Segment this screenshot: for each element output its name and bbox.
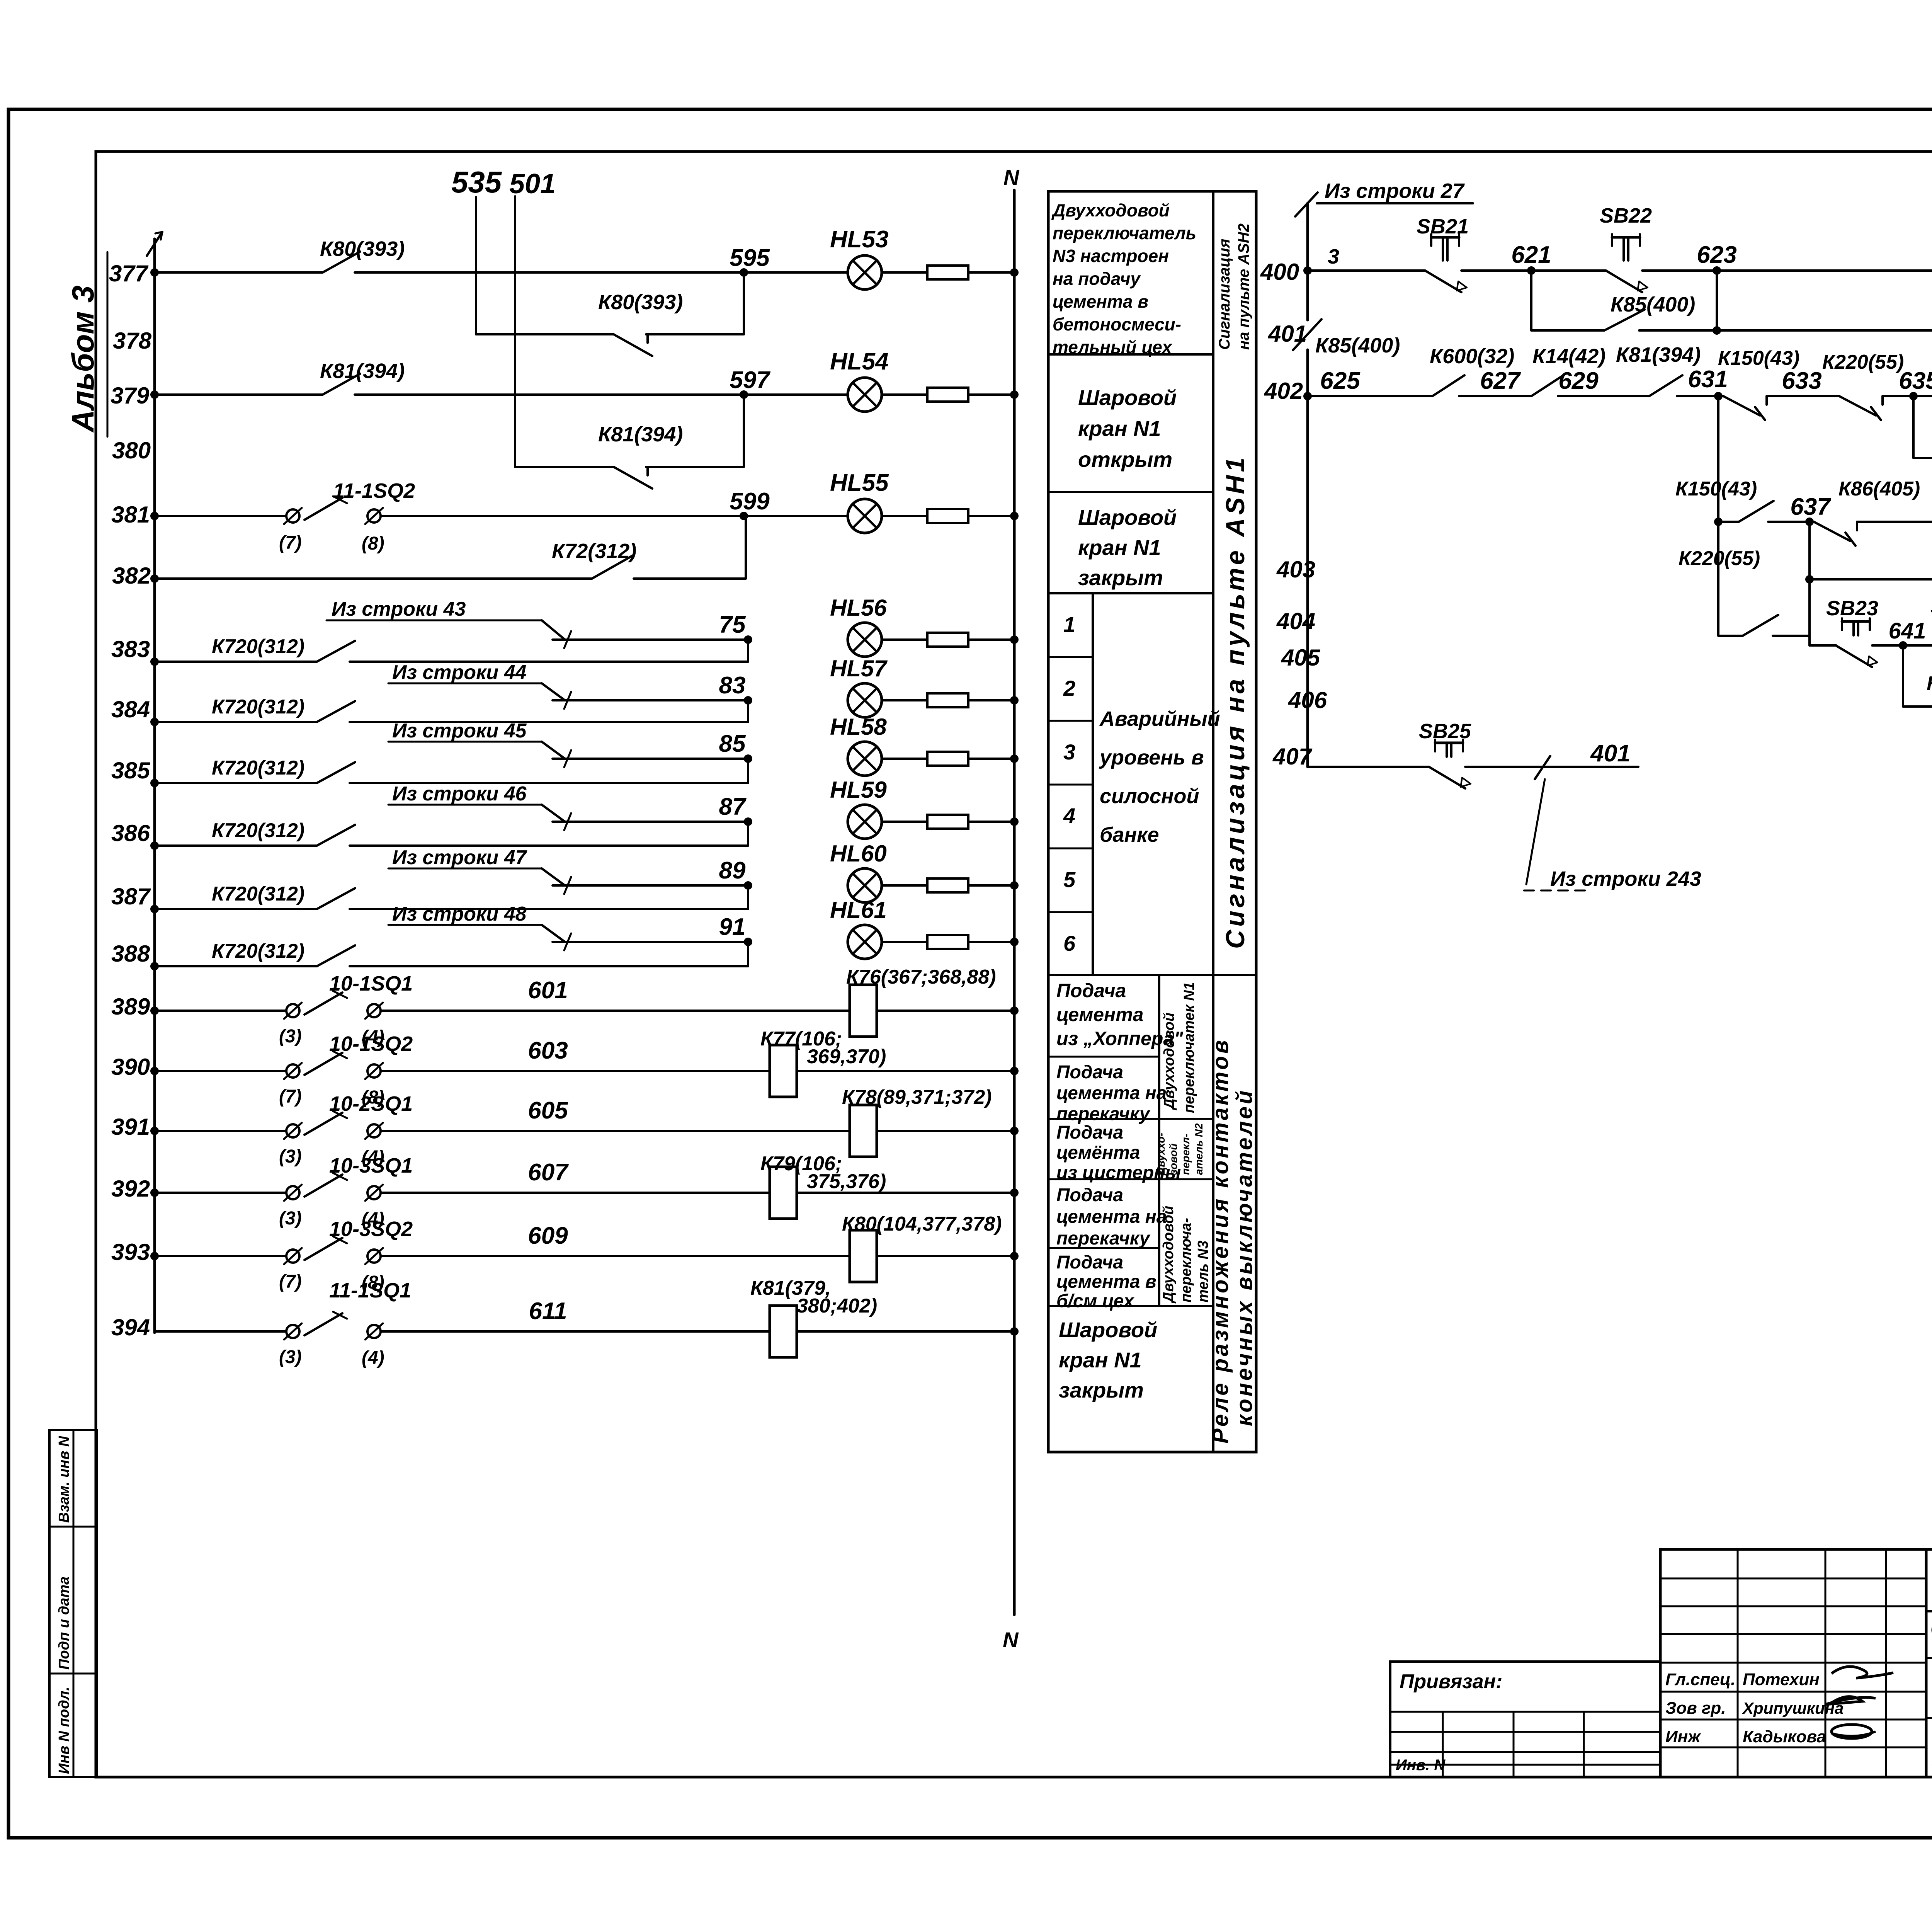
vertical jog row 384 [747, 700, 749, 722]
svg-text:цемента на: цемента на [1056, 1207, 1167, 1227]
wire HL55 to resistor [882, 515, 927, 517]
relay coil row 389 [850, 985, 877, 1037]
svg-text:переключатель: переключатель [1053, 223, 1196, 243]
svg-text:кран N1: кран N1 [1078, 416, 1161, 441]
signature 1 [1832, 1667, 1893, 1678]
svg-text:389: 389 [111, 994, 150, 1020]
title object line [1926, 1657, 1932, 1659]
svg-text:HL55: HL55 [830, 470, 889, 496]
svg-text:на подачу: на подачу [1053, 269, 1141, 289]
svg-text:Зов гр.: Зов гр. [1665, 1699, 1726, 1718]
limit switch 10-2SQ1 blade [304, 1113, 342, 1135]
svg-text:386: 386 [111, 820, 150, 846]
svg-text:б/см цех: б/см цех [1056, 1291, 1135, 1311]
svg-text:Привязан:: Привязан: [1400, 1670, 1502, 1693]
numbered sub-column line [1092, 593, 1094, 975]
wire row 388 from bus [155, 965, 317, 967]
svg-text:597: 597 [730, 367, 770, 393]
node row 391 on bus [150, 1127, 159, 1135]
wire row 405 b [1872, 644, 1932, 647]
wire coil to N row 394 [797, 1330, 1014, 1333]
contact K80(393) row 377 [323, 252, 360, 272]
limit switch 10-2SQ1 terminal (4) [367, 1124, 381, 1137]
reference diagonal row 384 [542, 683, 565, 700]
svg-text:Потехин: Потехин [1743, 1670, 1820, 1689]
svg-text:402: 402 [1264, 378, 1303, 404]
wire row 388 to node [350, 965, 748, 967]
wire row 402 c [1558, 395, 1649, 397]
lamp HL57 [848, 683, 882, 717]
svg-text:К85(400): К85(400) [1611, 293, 1695, 316]
node 637 [1805, 518, 1814, 526]
node 635 [1909, 392, 1918, 400]
node row 383 on bus [150, 657, 159, 666]
branch K86(405) vertical left [1902, 645, 1904, 707]
svg-text:зовой: зовой [1167, 1144, 1179, 1175]
junction N row 383 [1010, 635, 1019, 644]
resistor row 379 [927, 388, 968, 402]
condition table outer box [1048, 191, 1256, 1452]
svg-text:6: 6 [1063, 931, 1076, 955]
svg-text:406: 406 [1288, 687, 1327, 713]
resistor row 384 [927, 693, 968, 707]
svg-text:Из строки 243: Из строки 243 [1550, 867, 1701, 890]
svg-text:535: 535 [451, 165, 502, 199]
svg-text:Двухходовой: Двухходовой [1161, 1013, 1177, 1110]
svg-text:HL59: HL59 [830, 777, 887, 803]
table row line 1273 [1048, 491, 1213, 493]
vertical 637 to row 405 [1808, 522, 1811, 645]
svg-text:К86(405): К86(405) [1838, 478, 1920, 500]
svg-text:Подача: Подача [1056, 1122, 1123, 1143]
node row 393 on bus [150, 1252, 159, 1260]
title code line [1926, 1610, 1932, 1612]
svg-text:75: 75 [719, 611, 746, 638]
bus contact K85(400) [1293, 319, 1321, 350]
table row line 2895 [1048, 1118, 1213, 1120]
wire resistor to N row 377 [968, 271, 1014, 274]
svg-text:401: 401 [1268, 321, 1307, 347]
wire resistor to N row 385 [968, 758, 1014, 760]
junction N row 385 [1010, 754, 1019, 763]
junction N row 392 [1010, 1188, 1019, 1197]
svg-text:603: 603 [528, 1037, 568, 1064]
limit switch 11-1SQ2 terminal (7) [286, 509, 299, 523]
wire HL61 to resistor [882, 941, 927, 943]
junction bus row 400 [1303, 266, 1312, 275]
svg-text:392: 392 [111, 1176, 150, 1202]
svg-text:Инв. N: Инв. N [1396, 1757, 1446, 1774]
wire row 392 to coil [381, 1192, 770, 1194]
svg-text:385: 385 [111, 758, 151, 783]
svg-text:Гл.спец.: Гл.спец. [1665, 1670, 1735, 1689]
wire row 386 to node [350, 844, 748, 847]
node row 384 on bus [150, 718, 159, 726]
node 599 [740, 512, 748, 520]
node 91 [744, 938, 752, 946]
svg-text:Из строки 43: Из строки 43 [332, 598, 466, 620]
svg-text:382: 382 [112, 563, 151, 589]
svg-text:(7): (7) [279, 533, 302, 553]
wire row 377 right [355, 271, 848, 274]
svg-text:5: 5 [1063, 867, 1076, 892]
reference tick row 385 [564, 750, 571, 767]
svg-text:кран N1: кран N1 [1078, 535, 1161, 560]
svg-text:599: 599 [730, 488, 770, 515]
middle sub-column line [1158, 975, 1160, 1306]
wire row 384 from bus [155, 721, 317, 723]
svg-text:перекл-: перекл- [1180, 1134, 1192, 1175]
wire HL58 to resistor [882, 758, 927, 760]
svg-text:К720(312): К720(312) [212, 757, 304, 779]
svg-text:637: 637 [1790, 494, 1831, 520]
contact K600(32) [1432, 375, 1464, 396]
node 621 [1527, 266, 1536, 275]
svg-text:(7): (7) [279, 1272, 302, 1292]
reference dash underline 243 [1524, 890, 1587, 892]
svg-text:HL61: HL61 [830, 897, 887, 923]
signature 3 [1832, 1725, 1872, 1738]
svg-text:силосной: силосной [1100, 785, 1199, 808]
node 75 [744, 635, 752, 644]
wire row 391 to coil [381, 1130, 850, 1132]
svg-text:цемента на: цемента на [1056, 1083, 1167, 1103]
node 631 [1714, 392, 1723, 400]
svg-text:К80(393): К80(393) [598, 291, 683, 314]
wire row 402 e [1767, 395, 1839, 397]
pushbutton SB22 [1612, 236, 1640, 239]
junction N row 387 [1010, 881, 1019, 890]
branch 382 vertical to node 599 [745, 516, 747, 579]
junction N row 386 [1010, 817, 1019, 826]
node row 389 on bus [150, 1006, 159, 1015]
lamp HL55 [848, 499, 882, 533]
lamp HL53 [848, 255, 882, 289]
node 595 [740, 268, 748, 277]
vertical jog row 385 [747, 759, 749, 783]
node row 390 on bus [150, 1067, 159, 1075]
svg-text:К72(312): К72(312) [552, 540, 636, 563]
svg-text:Альбом 3: Альбом 3 [66, 286, 100, 433]
reference wire row 384 [553, 699, 748, 701]
svg-text:Подача: Подача [1056, 1252, 1123, 1273]
svg-text:SB21: SB21 [1417, 215, 1469, 238]
svg-text:К14(42): К14(42) [1532, 345, 1605, 368]
lamp HL59 [848, 805, 882, 839]
branch HL67 vertical from 635 [1912, 396, 1915, 458]
wire HL54 to resistor [882, 393, 927, 396]
reference diagonal row 383 [542, 620, 565, 640]
wire row 400 a [1308, 269, 1425, 272]
svg-text:К86(405): К86(405) [1927, 672, 1932, 695]
wire resistor to N row 388 [968, 941, 1014, 943]
reference tick row 384 [564, 692, 571, 709]
reference diagonal row 387 [542, 868, 565, 885]
vertical jog row 386 [747, 822, 749, 846]
title bottom split [1926, 1717, 1932, 1719]
contact K150(43) NC row 402 [1723, 396, 1760, 415]
svg-text:N: N [1003, 165, 1020, 189]
svg-text:К720(312): К720(312) [212, 635, 304, 658]
branch 380 vertical from node 597 [743, 395, 745, 467]
wire row 402 d [1677, 395, 1723, 397]
limit switch 10-1SQ1 terminal (3) [286, 1004, 299, 1017]
wire row 385 to node [350, 782, 748, 784]
wire row 394 from bus [155, 1330, 286, 1333]
contact K86(405) NC row 403 [1814, 522, 1850, 541]
svg-text:2: 2 [1063, 676, 1075, 700]
svg-text:переключа-: переключа- [1178, 1218, 1194, 1302]
node 597 [740, 390, 748, 399]
wire row 390 to coil [381, 1070, 770, 1072]
pushbutton SB23 [1842, 620, 1870, 623]
svg-text:Двухходовой: Двухходовой [1160, 1206, 1177, 1304]
svg-text:К220(55): К220(55) [1822, 351, 1904, 373]
relay coil row 393 [850, 1230, 877, 1282]
N bus (left ladder) [1013, 190, 1016, 1615]
svg-text:атель N2: атель N2 [1193, 1123, 1205, 1175]
junction N row 381 [1010, 512, 1019, 520]
node row 379 on bus [150, 390, 159, 399]
svg-text:К76(367;368,88): К76(367;368,88) [846, 966, 996, 988]
svg-text:HL54: HL54 [830, 348, 889, 375]
svg-text:4: 4 [1063, 804, 1075, 828]
reference wire row 385 [553, 758, 748, 760]
junction N row 389 [1010, 1006, 1019, 1015]
number cell divider 5 [1048, 911, 1093, 913]
wire row 394 to coil [381, 1330, 770, 1333]
junction N row 394 [1010, 1327, 1019, 1336]
svg-text:К150(43): К150(43) [1675, 478, 1757, 500]
svg-text:HL58: HL58 [830, 714, 887, 740]
wire coil to N row 391 [877, 1130, 1014, 1132]
svg-text:N: N [1003, 1628, 1019, 1652]
svg-text:Сигнализация на пульте АSН1: Сигнализация на пульте АSН1 [1221, 455, 1250, 949]
wire resistor to N row 381 [968, 515, 1014, 517]
svg-text:Шаровой: Шаровой [1078, 505, 1177, 529]
wire row 402 a [1308, 395, 1432, 397]
svg-text:(4): (4) [362, 1348, 384, 1368]
svg-text:К80(104,377,378): К80(104,377,378) [842, 1213, 1002, 1235]
branch 378 vertical from node 595 [743, 272, 745, 334]
limit switch 10-3SQ2 blade [304, 1238, 342, 1260]
svg-text:цемента: цемента [1056, 1004, 1143, 1025]
reference diagonal row 386 [542, 805, 565, 822]
reference underline row 386 [388, 804, 542, 806]
wire row 405 a [1810, 644, 1836, 647]
svg-text:384: 384 [111, 696, 150, 722]
svg-text:К81(394): К81(394) [320, 359, 405, 383]
svg-text:К720(312): К720(312) [212, 696, 304, 718]
limit switch 10-3SQ1 blade [304, 1175, 342, 1197]
svg-text:Из строки 27: Из строки 27 [1325, 179, 1465, 203]
reference tick row 383 [564, 631, 571, 648]
svg-text:Двуххо-: Двуххо- [1155, 1133, 1167, 1176]
leader to iz stroki 243 [1526, 779, 1545, 884]
title block sign table [1660, 1549, 1926, 1777]
svg-text:393: 393 [111, 1239, 150, 1265]
wire resistor to N row 386 [968, 821, 1014, 823]
relay coil row 392 [770, 1167, 797, 1219]
svg-text:627: 627 [1480, 368, 1521, 394]
limit switch 10-3SQ1 terminal (3) [286, 1186, 299, 1199]
node 89 [744, 881, 752, 890]
signature 2 [1825, 1697, 1876, 1704]
junction 401 [1713, 326, 1721, 335]
svg-text:Сигнализация: Сигнализация [1216, 239, 1233, 350]
svg-text:607: 607 [528, 1159, 569, 1186]
vertical jog row 387 [747, 885, 749, 909]
relay coil row 390 [770, 1045, 797, 1097]
svg-text:Подп и дата: Подп и дата [56, 1577, 72, 1670]
svg-text:(7): (7) [279, 1086, 302, 1107]
wire row 379 right [355, 393, 848, 396]
resistor row 386 [927, 815, 968, 829]
svg-text:К220(55): К220(55) [1679, 547, 1760, 570]
wire row 407 b [1465, 766, 1638, 768]
svg-text:переключатек N1: переключатек N1 [1181, 982, 1197, 1113]
vertical from node 631 [1717, 396, 1719, 636]
svg-text:на пульте АSН2: на пульте АSН2 [1235, 223, 1252, 350]
node row 381 on bus [150, 512, 159, 520]
limit switch 10-3SQ2 terminal (8) [367, 1250, 381, 1263]
wire row 383 to node [350, 661, 748, 663]
wire row 387 to node [350, 908, 748, 910]
svg-text:3: 3 [1063, 740, 1075, 764]
wire row 379 left [155, 393, 323, 396]
contact K220(55) NC row 402 [1839, 396, 1876, 415]
vertical feeder 501 [514, 196, 516, 467]
table row line 3379 [1048, 1305, 1213, 1307]
svg-text:К81(394): К81(394) [1616, 343, 1701, 366]
svg-text:394: 394 [111, 1314, 150, 1340]
wire HL53 to resistor [882, 271, 927, 274]
reference tick row 388 [564, 933, 571, 950]
junction N row 393 [1010, 1252, 1019, 1260]
svg-text:369,370): 369,370) [807, 1045, 886, 1068]
svg-text:625: 625 [1320, 368, 1361, 394]
svg-text:379: 379 [111, 383, 150, 409]
limit switch 10-1SQ2 terminal (8) [367, 1064, 381, 1078]
wire row 384 to node [350, 721, 748, 723]
svg-text:631: 631 [1688, 366, 1728, 393]
privyazan grid [1390, 1711, 1660, 1713]
limit switch 10-1SQ2 terminal (7) [286, 1064, 299, 1078]
wire row 390 from bus [155, 1070, 286, 1072]
svg-text:N3 настроен: N3 настроен [1053, 246, 1169, 266]
svg-text:387: 387 [111, 884, 151, 909]
contact K85(400) branch 401 [1604, 310, 1645, 330]
node 623 [1713, 266, 1721, 275]
reference wire row 387 [553, 884, 748, 887]
svg-text:635: 635 [1899, 368, 1932, 394]
contact K14(42) [1531, 375, 1563, 396]
svg-text:87: 87 [719, 793, 747, 820]
privyazan box [1390, 1662, 1660, 1777]
relay coil row 391 [850, 1105, 877, 1157]
wire coil to N row 390 [797, 1070, 1014, 1072]
svg-text:SB24: SB24 [1930, 595, 1932, 618]
lamp HL61 [848, 925, 882, 959]
junction N row 388 [1010, 938, 1019, 946]
svg-text:Хрипушкина: Хрипушкина [1742, 1699, 1844, 1717]
wire HL60 to resistor [882, 884, 927, 887]
svg-text:HL60: HL60 [830, 841, 887, 867]
bus entry slash [1295, 192, 1318, 216]
svg-text:К720(312): К720(312) [212, 883, 304, 905]
wire coil to N row 392 [797, 1192, 1014, 1194]
svg-text:Кадыкова: Кадыкова [1743, 1727, 1826, 1746]
table row line 3229 [1048, 1247, 1159, 1249]
svg-text:К720(312): К720(312) [212, 819, 304, 842]
number cell divider 3 [1048, 784, 1093, 786]
node row 386 on bus [150, 841, 159, 850]
svg-text:К78(89,371;372): К78(89,371;372) [842, 1086, 992, 1108]
svg-text:К600(32): К600(32) [1430, 345, 1514, 368]
svg-text:401: 401 [1590, 740, 1630, 767]
contact K720(312) row 386 [317, 825, 355, 846]
svg-text:Взам. инв N: Взам. инв N [56, 1435, 72, 1523]
svg-text:91: 91 [719, 914, 746, 940]
svg-text:605: 605 [528, 1097, 568, 1124]
branch 401 wire b [1639, 329, 1932, 332]
lamp HL58 [848, 742, 882, 776]
svg-text:10-3SQ1: 10-3SQ1 [329, 1154, 413, 1177]
svg-text:11-1SQ2: 11-1SQ2 [333, 479, 415, 502]
limit switch 11-1SQ1 terminal (3) [286, 1325, 299, 1338]
svg-text:HL53: HL53 [830, 226, 889, 253]
limit switch 11-1SQ1 terminal (4) [367, 1325, 381, 1338]
wire row 402 b [1459, 395, 1531, 397]
svg-text:(3): (3) [279, 1026, 302, 1047]
svg-text:Из строки 48: Из строки 48 [392, 903, 527, 925]
resistor row 385 [927, 752, 968, 766]
svg-text:бетоносмеси-: бетоносмеси- [1053, 314, 1181, 334]
svg-text:611: 611 [529, 1298, 567, 1325]
wire row 392 from bus [155, 1192, 286, 1194]
svg-text:375,376): 375,376) [807, 1170, 886, 1193]
condition table column line [1212, 191, 1214, 1452]
svg-text:380: 380 [112, 438, 151, 463]
svg-text:Шаровой: Шаровой [1059, 1318, 1157, 1342]
svg-text:621: 621 [1511, 242, 1551, 268]
reference wire row 383 [553, 638, 748, 641]
reference underline row 383 [327, 620, 542, 621]
wire row 382 [155, 577, 592, 580]
svg-text:закрыт: закрыт [1059, 1378, 1144, 1402]
number cell divider 2 [1048, 720, 1093, 722]
svg-text:641: 641 [1889, 618, 1926, 644]
svg-text:83: 83 [719, 672, 746, 699]
limit switch 10-1SQ1 blade [304, 993, 342, 1015]
table row line 2523 [1048, 974, 1256, 976]
node row 402 on bus [1303, 392, 1312, 400]
svg-text:цемента в: цемента в [1053, 291, 1148, 312]
resistor row 381 [927, 509, 968, 523]
limit switch 10-1SQ2 blade [304, 1053, 342, 1075]
node 85 [744, 754, 752, 763]
svg-text:11-1SQ1: 11-1SQ1 [329, 1279, 411, 1302]
svg-text:381: 381 [111, 502, 150, 528]
svg-text:Реле размножения контактов: Реле размножения контактов [1208, 1038, 1233, 1444]
svg-text:Из строки 46: Из строки 46 [392, 783, 527, 805]
table row line 917 [1048, 353, 1213, 356]
svg-text:380;402): 380;402) [797, 1295, 877, 1317]
svg-text:595: 595 [730, 245, 770, 271]
reference underline row 384 [388, 683, 542, 684]
svg-text:10-3SQ2: 10-3SQ2 [329, 1217, 413, 1241]
svg-text:уровень в: уровень в [1099, 746, 1204, 769]
